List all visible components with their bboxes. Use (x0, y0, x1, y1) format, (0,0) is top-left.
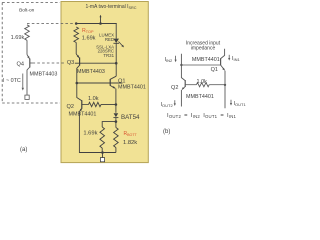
svg-text:Q4: Q4 (17, 62, 24, 68)
svg-text:IIN2: IIN2 (165, 57, 174, 63)
svg-text:1.0k: 1.0k (88, 96, 99, 102)
svg-text:IOUT2: IOUT2 (161, 102, 174, 108)
svg-text:Q2: Q2 (67, 104, 74, 110)
svg-text:1.69k: 1.69k (82, 35, 96, 41)
svg-text:BAT54: BAT54 (121, 114, 140, 121)
svg-text:impedance: impedance (191, 46, 216, 52)
svg-text:IOUT1 = IIN1: IOUT1 = IIN1 (203, 113, 236, 119)
svg-text:(a): (a) (20, 147, 27, 153)
svg-text:1.82k: 1.82k (123, 140, 137, 146)
svg-text:Q3: Q3 (67, 60, 74, 66)
svg-text:Q1: Q1 (211, 67, 218, 73)
svg-text:MMBT4401: MMBT4401 (69, 111, 97, 117)
svg-text:MMBT4401: MMBT4401 (118, 84, 146, 90)
svg-text:RED: RED (105, 37, 114, 42)
svg-text:IIN1: IIN1 (232, 56, 241, 62)
svg-text:TR31: TR31 (103, 53, 114, 58)
svg-text:1.69k: 1.69k (11, 35, 25, 41)
svg-text:Q2: Q2 (171, 85, 178, 91)
svg-text:MMBT4401: MMBT4401 (192, 57, 220, 63)
svg-text:IOUT2 = IIN2: IOUT2 = IIN2 (167, 113, 200, 119)
svg-text:MMBT4403: MMBT4403 (77, 69, 105, 75)
svg-text:Bolt-on: Bolt-on (19, 7, 35, 13)
svg-text:1.69k: 1.69k (83, 131, 97, 137)
svg-text:IOUT1: IOUT1 (234, 101, 247, 107)
svg-text:MMBT4403: MMBT4403 (30, 72, 58, 78)
svg-text:1.0k: 1.0k (197, 79, 208, 85)
svg-text:MMBT4401: MMBT4401 (186, 94, 214, 100)
svg-text:(b): (b) (163, 129, 170, 135)
svg-text:I ~ 0TC: I ~ 0TC (3, 78, 21, 84)
